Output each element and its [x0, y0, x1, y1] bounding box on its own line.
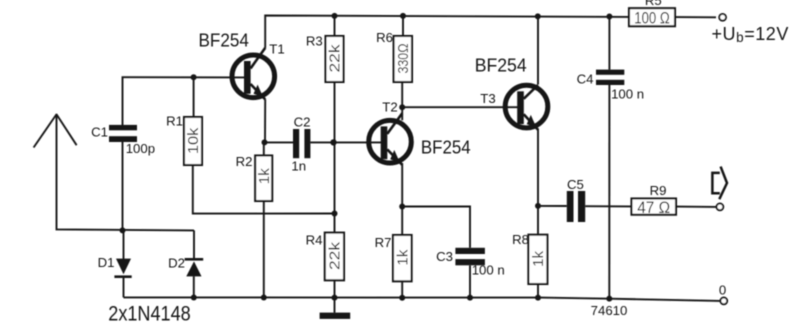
svg-text:22k: 22k	[327, 44, 344, 73]
svg-text:R3: R3	[306, 34, 323, 49]
svg-text:C3: C3	[436, 249, 453, 264]
svg-text:74610: 74610	[591, 303, 628, 318]
svg-text:1k: 1k	[256, 168, 273, 185]
svg-text:C2: C2	[294, 114, 311, 129]
svg-text:0: 0	[719, 283, 726, 298]
svg-text:C5: C5	[567, 177, 584, 192]
svg-text:2x1N4148: 2x1N4148	[108, 303, 191, 326]
svg-text:T2: T2	[382, 100, 397, 115]
svg-text:100 n: 100 n	[472, 263, 505, 278]
svg-text:R4: R4	[306, 233, 323, 248]
svg-text:BF254: BF254	[421, 138, 471, 158]
svg-text:+Ub=12V: +Ub=12V	[712, 24, 789, 45]
svg-text:1k: 1k	[395, 249, 412, 266]
svg-text:330Ω: 330Ω	[395, 44, 412, 74]
svg-text:100 n: 100 n	[611, 86, 644, 101]
svg-text:T1: T1	[269, 41, 284, 56]
svg-text:BF254: BF254	[199, 30, 249, 50]
svg-text:1n: 1n	[291, 158, 306, 173]
svg-text:R7: R7	[375, 235, 392, 250]
svg-text:R2: R2	[236, 154, 253, 169]
svg-text:BF254: BF254	[475, 56, 527, 76]
svg-text:R8: R8	[512, 232, 529, 247]
svg-text:C4: C4	[577, 72, 594, 87]
svg-text:R6: R6	[376, 30, 393, 45]
svg-text:D2: D2	[168, 256, 185, 271]
svg-text:1k: 1k	[530, 250, 547, 267]
svg-text:22k: 22k	[327, 241, 344, 270]
svg-text:D1: D1	[98, 255, 115, 270]
svg-text:100p: 100p	[126, 141, 155, 156]
svg-text:47 Ω: 47 Ω	[637, 199, 670, 217]
svg-text:R1: R1	[166, 113, 183, 128]
svg-text:C1: C1	[91, 124, 108, 139]
svg-text:R9: R9	[650, 183, 667, 198]
svg-text:100 Ω: 100 Ω	[634, 9, 670, 27]
svg-text:10k: 10k	[185, 127, 202, 154]
svg-text:R5: R5	[645, 0, 662, 8]
svg-text:T3: T3	[480, 91, 495, 106]
